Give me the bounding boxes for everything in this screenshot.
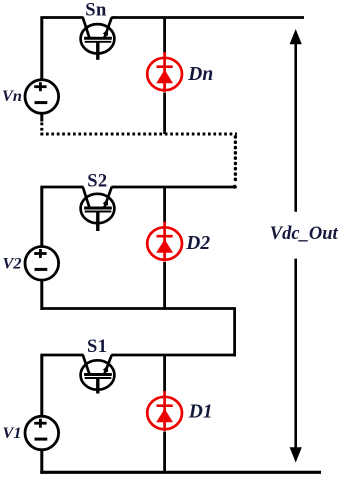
svg-text:S1: S1 (87, 337, 107, 357)
svg-text:D2: D2 (185, 233, 210, 254)
svg-text:Dn: Dn (187, 64, 213, 85)
svg-text:V1: V1 (3, 423, 22, 442)
svg-text:Vdc_Out: Vdc_Out (270, 224, 339, 244)
svg-text:Vn: Vn (2, 86, 22, 105)
svg-text:S2: S2 (87, 171, 107, 191)
svg-text:D1: D1 (188, 401, 213, 422)
svg-text:V2: V2 (3, 254, 22, 273)
svg-text:Sn: Sn (85, 0, 107, 20)
